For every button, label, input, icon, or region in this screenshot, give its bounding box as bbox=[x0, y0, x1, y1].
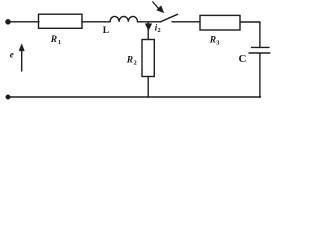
svg-text:R: R bbox=[209, 35, 216, 45]
svg-text:R: R bbox=[126, 55, 133, 65]
svg-text:C: C bbox=[239, 53, 247, 65]
svg-text:e: e bbox=[10, 49, 14, 59]
svg-text:2: 2 bbox=[134, 59, 137, 66]
svg-text:R: R bbox=[50, 35, 57, 45]
svg-text:2: 2 bbox=[158, 28, 161, 34]
svg-text:1: 1 bbox=[58, 39, 61, 46]
svg-text:L: L bbox=[103, 26, 109, 36]
